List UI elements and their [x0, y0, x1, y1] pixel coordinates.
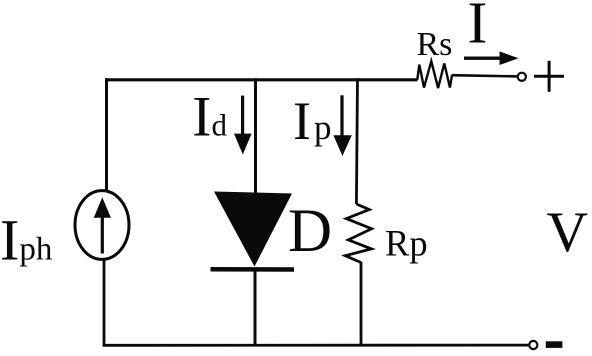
svg-text:D: D: [288, 198, 332, 265]
resistor Rp: [345, 204, 371, 263]
diode D: [211, 192, 295, 270]
current source Iph: [75, 191, 129, 260]
wire left vertical upper: [105, 78, 108, 192]
current arrow I: [464, 51, 519, 65]
wire diode branch lower: [254, 268, 257, 346]
svg-text:I: I: [468, 0, 488, 56]
terminal node minus: [529, 341, 537, 349]
wire diode branch upper: [254, 78, 257, 193]
wire top horizontal: [105, 78, 418, 81]
wire bottom horizontal: [103, 344, 529, 347]
svg-text:V: V: [547, 201, 589, 264]
svg-text:Rp: Rp: [385, 223, 428, 264]
current arrow Ip: [333, 95, 351, 156]
minus sign: [546, 341, 563, 348]
wire Rp branch upper: [356, 78, 357, 204]
wire Rp branch lower: [360, 262, 363, 346]
plus sign: [534, 61, 564, 92]
wire left vertical lower: [103, 259, 106, 346]
svg-text:Rs: Rs: [417, 26, 453, 63]
wire top right to terminal: [452, 75, 517, 76]
resistor Rs: [417, 61, 452, 88]
terminal node plus: [518, 73, 526, 81]
current arrow Id: [234, 96, 252, 155]
